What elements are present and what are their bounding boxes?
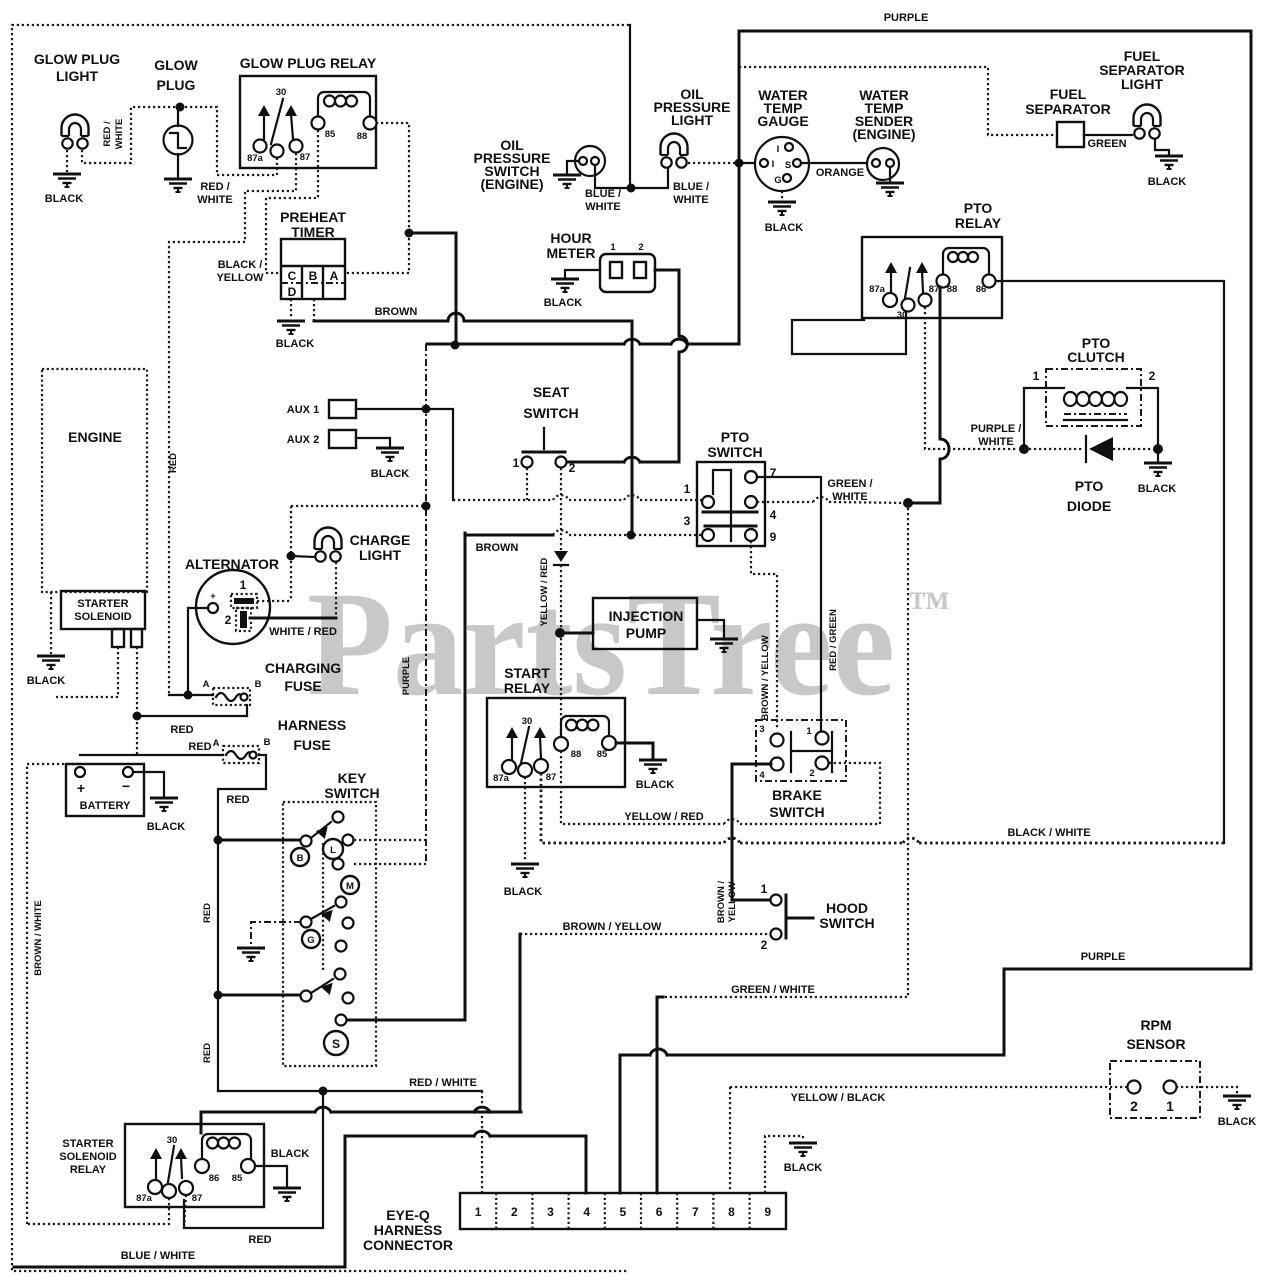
- svg-text:BLACK / WHITE: BLACK / WHITE: [1007, 827, 1090, 839]
- svg-text:PTO: PTO: [964, 200, 993, 216]
- svg-text:1: 1: [513, 456, 520, 470]
- svg-text:ENGINE: ENGINE: [68, 429, 122, 445]
- svg-text:CLUTCH: CLUTCH: [1067, 349, 1125, 365]
- svg-text:RPM: RPM: [1140, 1017, 1171, 1033]
- svg-text:87a: 87a: [247, 153, 264, 164]
- svg-text:1: 1: [475, 1205, 482, 1219]
- svg-text:1: 1: [1033, 369, 1040, 383]
- svg-text:85: 85: [597, 749, 608, 760]
- svg-text:88: 88: [571, 749, 582, 760]
- svg-text:RED / GREEN: RED / GREEN: [828, 609, 839, 671]
- svg-text:87a: 87a: [869, 284, 886, 295]
- svg-text:PURPLE: PURPLE: [1081, 951, 1126, 963]
- svg-text:SENSOR: SENSOR: [1126, 1036, 1185, 1052]
- svg-text:DIODE: DIODE: [1067, 498, 1111, 514]
- svg-text:RED / WHITE: RED / WHITE: [409, 1077, 477, 1089]
- svg-text:2: 2: [638, 242, 643, 253]
- svg-text:LIGHT: LIGHT: [359, 547, 401, 563]
- svg-text:GLOW PLUG: GLOW PLUG: [34, 51, 120, 67]
- svg-text:PURPLE /: PURPLE /: [971, 423, 1022, 435]
- svg-text:GLOW: GLOW: [154, 57, 198, 73]
- svg-text:PTO: PTO: [1075, 478, 1104, 494]
- svg-text:INJECTION: INJECTION: [609, 608, 684, 624]
- svg-text:RED: RED: [188, 741, 211, 753]
- svg-text:YELLOW / RED: YELLOW / RED: [539, 558, 550, 627]
- svg-text:BLACK: BLACK: [27, 675, 66, 687]
- svg-text:BLUE / WHITE: BLUE / WHITE: [121, 1250, 196, 1262]
- svg-text:LIGHT: LIGHT: [671, 112, 713, 128]
- svg-text:4: 4: [759, 770, 765, 781]
- svg-text:L: L: [330, 845, 336, 856]
- svg-text:WHITE: WHITE: [978, 436, 1013, 448]
- svg-text:PartsTree: PartsTree: [307, 561, 895, 727]
- svg-text:PLUG: PLUG: [157, 77, 196, 93]
- svg-text:1: 1: [610, 242, 616, 253]
- svg-text:BLACK: BLACK: [147, 821, 186, 833]
- svg-text:+: +: [77, 780, 85, 796]
- svg-text:STARTER: STARTER: [62, 1138, 113, 1150]
- svg-text:(ENGINE): (ENGINE): [481, 176, 544, 192]
- svg-text:YELLOW: YELLOW: [727, 882, 738, 923]
- svg-text:2: 2: [225, 613, 232, 627]
- svg-text:KEY: KEY: [338, 770, 367, 786]
- svg-text:RELAY: RELAY: [504, 680, 551, 696]
- svg-text:PURPLE: PURPLE: [401, 657, 412, 696]
- svg-text:RED: RED: [226, 794, 249, 806]
- svg-text:B: B: [309, 269, 318, 283]
- svg-text:5: 5: [620, 1205, 627, 1219]
- svg-text:BLACK: BLACK: [544, 297, 583, 309]
- svg-text:G: G: [774, 175, 781, 186]
- svg-text:SEAT: SEAT: [533, 384, 570, 400]
- svg-text:3: 3: [547, 1205, 554, 1219]
- svg-text:RED: RED: [202, 1043, 213, 1063]
- svg-text:HOOD: HOOD: [826, 900, 868, 916]
- svg-text:87: 87: [192, 1193, 203, 1204]
- svg-text:BLACK: BLACK: [504, 886, 543, 898]
- svg-text:WHITE: WHITE: [585, 201, 620, 213]
- svg-text:PREHEAT: PREHEAT: [280, 209, 346, 225]
- svg-text:WHITE: WHITE: [114, 119, 125, 150]
- svg-text:30: 30: [276, 87, 287, 98]
- svg-text:FUSE: FUSE: [284, 678, 321, 694]
- svg-text:RED /: RED /: [200, 181, 229, 193]
- svg-text:BLACK: BLACK: [276, 338, 315, 350]
- svg-text:ORANGE: ORANGE: [816, 167, 864, 179]
- svg-text:S: S: [332, 1037, 340, 1051]
- svg-text:9: 9: [764, 1205, 771, 1219]
- svg-text:BATTERY: BATTERY: [80, 800, 131, 812]
- svg-text:7: 7: [692, 1205, 699, 1219]
- svg-text:87: 87: [929, 284, 940, 295]
- svg-text:FUSE: FUSE: [293, 737, 330, 753]
- svg-text:BLACK: BLACK: [784, 1162, 823, 1174]
- svg-text:88: 88: [357, 131, 368, 142]
- svg-text:METER: METER: [547, 245, 596, 261]
- svg-text:AUX 2: AUX 2: [287, 434, 319, 446]
- svg-text:SEPARATOR: SEPARATOR: [1025, 101, 1111, 117]
- svg-text:PTO: PTO: [721, 429, 750, 445]
- svg-text:LIGHT: LIGHT: [1121, 76, 1163, 92]
- svg-text:CHARGING: CHARGING: [265, 660, 341, 676]
- svg-text:START: START: [504, 665, 550, 681]
- svg-text:LIGHT: LIGHT: [56, 68, 98, 84]
- svg-text:−: −: [122, 778, 130, 794]
- svg-text:YELLOW / BLACK: YELLOW / BLACK: [791, 1092, 886, 1104]
- svg-text:SWITCH: SWITCH: [769, 804, 824, 820]
- svg-text:WHITE: WHITE: [197, 194, 232, 206]
- svg-text:D: D: [288, 285, 297, 299]
- svg-text:RELAY: RELAY: [955, 215, 1002, 231]
- svg-text:30: 30: [167, 1135, 178, 1146]
- svg-text:GREEN: GREEN: [1087, 138, 1126, 150]
- svg-text:SWITCH: SWITCH: [523, 405, 578, 421]
- svg-text:RED /: RED /: [102, 121, 113, 147]
- svg-text:8: 8: [728, 1205, 735, 1219]
- svg-text:PUMP: PUMP: [626, 625, 666, 641]
- svg-text:SWITCH: SWITCH: [819, 915, 874, 931]
- svg-text:GREEN /: GREEN /: [827, 478, 872, 490]
- svg-text:BLACK: BLACK: [1218, 1116, 1257, 1128]
- svg-text:BLACK: BLACK: [1138, 483, 1177, 495]
- svg-text:9: 9: [770, 530, 777, 544]
- svg-text:BLACK: BLACK: [636, 779, 675, 791]
- svg-text:2: 2: [569, 461, 576, 475]
- svg-text:HOUR: HOUR: [550, 230, 591, 246]
- svg-text:GREEN / WHITE: GREEN / WHITE: [731, 984, 815, 996]
- svg-text:BLACK /: BLACK /: [218, 259, 263, 271]
- svg-text:87: 87: [546, 772, 557, 783]
- svg-text:BLACK: BLACK: [271, 1148, 310, 1160]
- svg-text:1: 1: [806, 726, 812, 737]
- svg-text:SWITCH: SWITCH: [324, 785, 379, 801]
- svg-text:YELLOW / RED: YELLOW / RED: [624, 811, 704, 823]
- svg-text:WHITE: WHITE: [673, 194, 708, 206]
- svg-text:30: 30: [522, 716, 533, 727]
- svg-text:3: 3: [759, 724, 764, 735]
- svg-text:G: G: [307, 935, 314, 946]
- svg-text:STARTER: STARTER: [77, 598, 128, 610]
- svg-text:BROWN: BROWN: [476, 542, 519, 554]
- svg-text:BLACK: BLACK: [765, 222, 804, 234]
- svg-text:BROWN /: BROWN /: [716, 881, 727, 924]
- svg-text:A: A: [330, 269, 339, 283]
- svg-text:CONNECTOR: CONNECTOR: [363, 1237, 453, 1253]
- svg-text:RELAY: RELAY: [70, 1164, 107, 1176]
- svg-text:1: 1: [1166, 1098, 1174, 1114]
- svg-text:2: 2: [761, 938, 768, 952]
- svg-text:BLACK: BLACK: [371, 468, 410, 480]
- svg-text:6: 6: [656, 1205, 663, 1219]
- svg-text:PURPLE: PURPLE: [884, 12, 929, 24]
- svg-text:2: 2: [1149, 369, 1156, 383]
- svg-text:CHARGE: CHARGE: [350, 532, 411, 548]
- svg-text:HARNESS: HARNESS: [374, 1222, 442, 1238]
- svg-text:85: 85: [325, 129, 336, 140]
- svg-text:B: B: [297, 853, 304, 864]
- svg-text:BROWN / YELLOW: BROWN / YELLOW: [760, 635, 771, 720]
- svg-text:M: M: [346, 881, 354, 892]
- svg-text:YELLOW: YELLOW: [216, 272, 264, 284]
- svg-text:BROWN: BROWN: [375, 306, 418, 318]
- svg-text:B: B: [255, 679, 262, 690]
- svg-text:+: +: [210, 591, 216, 602]
- svg-text:I: I: [772, 159, 775, 170]
- svg-text:BROWN / WHITE: BROWN / WHITE: [33, 900, 44, 975]
- svg-text:BROWN / YELLOW: BROWN / YELLOW: [563, 921, 662, 933]
- svg-text:S: S: [785, 160, 791, 171]
- svg-text:1: 1: [240, 578, 247, 592]
- svg-text:GLOW PLUG RELAY: GLOW PLUG RELAY: [240, 55, 377, 71]
- svg-text:BLACK: BLACK: [1148, 176, 1187, 188]
- svg-text:A: A: [213, 738, 220, 749]
- svg-text:85: 85: [232, 1173, 243, 1184]
- svg-text:4: 4: [770, 508, 777, 522]
- svg-text:BLACK: BLACK: [45, 193, 84, 205]
- svg-text:RED: RED: [170, 724, 193, 736]
- svg-text:87a: 87a: [136, 1193, 153, 1204]
- svg-text:BLUE /: BLUE /: [673, 181, 709, 193]
- svg-text:86: 86: [976, 284, 987, 295]
- svg-text:87a: 87a: [493, 773, 510, 784]
- svg-text:RED: RED: [248, 1234, 271, 1246]
- svg-text:RED: RED: [202, 903, 213, 923]
- svg-text:C: C: [288, 269, 297, 283]
- svg-text:2: 2: [1130, 1098, 1138, 1114]
- svg-text:2: 2: [809, 768, 814, 779]
- svg-text:88: 88: [947, 284, 958, 295]
- svg-text:(ENGINE): (ENGINE): [853, 126, 916, 142]
- svg-text:86: 86: [209, 1173, 220, 1184]
- svg-text:SWITCH: SWITCH: [707, 444, 762, 460]
- svg-text:1: 1: [684, 482, 691, 496]
- svg-text:RED: RED: [168, 453, 179, 473]
- svg-text:I: I: [777, 144, 780, 155]
- svg-text:™: ™: [908, 584, 950, 630]
- svg-text:4: 4: [583, 1205, 590, 1219]
- svg-text:B: B: [264, 737, 271, 748]
- svg-text:TIMER: TIMER: [291, 224, 335, 240]
- svg-text:A: A: [203, 679, 210, 690]
- svg-text:GAUGE: GAUGE: [757, 113, 808, 129]
- svg-text:HARNESS: HARNESS: [278, 717, 346, 733]
- svg-text:BRAKE: BRAKE: [772, 787, 822, 803]
- svg-text:AUX 1: AUX 1: [287, 404, 319, 416]
- svg-text:3: 3: [684, 514, 691, 528]
- svg-text:2: 2: [511, 1205, 518, 1219]
- svg-text:SOLENOID: SOLENOID: [59, 1151, 117, 1163]
- svg-text:FUEL: FUEL: [1050, 86, 1087, 102]
- svg-text:1: 1: [761, 882, 768, 896]
- svg-text:EYE-Q: EYE-Q: [386, 1207, 430, 1223]
- svg-text:87: 87: [300, 152, 311, 163]
- svg-text:BLUE /: BLUE /: [585, 188, 621, 200]
- svg-text:WHITE / RED: WHITE / RED: [269, 626, 337, 638]
- svg-text:SOLENOID: SOLENOID: [74, 611, 132, 623]
